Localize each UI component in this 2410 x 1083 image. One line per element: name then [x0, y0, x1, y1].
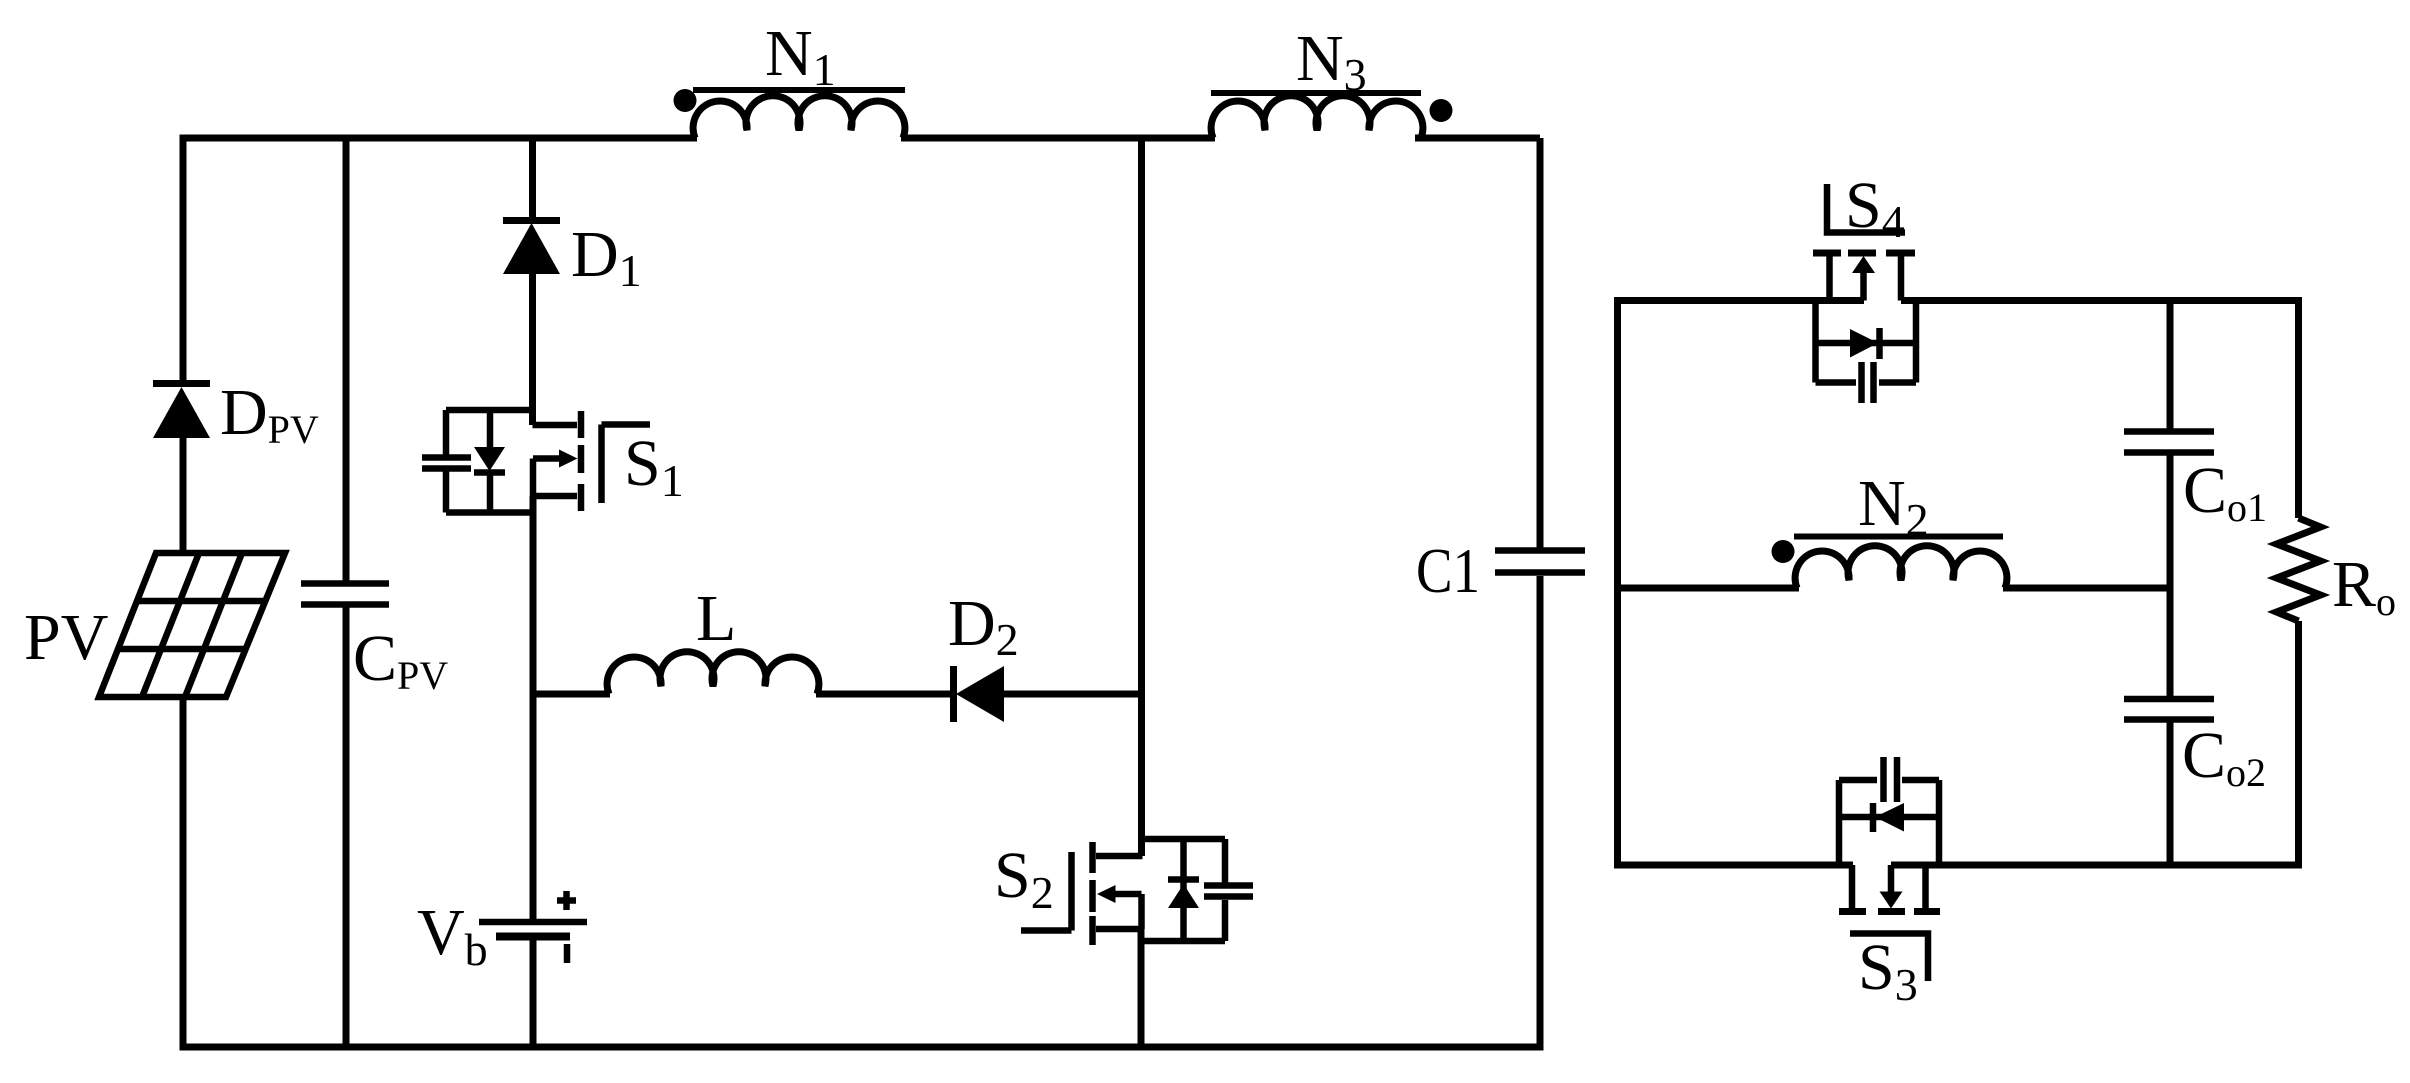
- wire C1 branch lower: [1537, 576, 1544, 1047]
- svg-text:Vb: Vb: [417, 896, 488, 975]
- wire right top rail left: [1614, 297, 1864, 304]
- svg-text:S3: S3: [1858, 931, 1918, 1010]
- S2 body diode triangle: [1168, 884, 1199, 908]
- wire Co branch top: [2167, 301, 2174, 430]
- S1 arrow head: [559, 450, 578, 468]
- resistor Ro: [2277, 297, 2321, 869]
- inductor N3: [1211, 93, 1423, 138]
- svg-text:Co1: Co1: [2183, 454, 2267, 530]
- PV panel: [99, 553, 285, 697]
- svg-text:S4: S4: [1845, 169, 1905, 247]
- inductor N1: [693, 90, 905, 138]
- wire N2 left: [1618, 585, 1800, 592]
- wire left rail upper: [180, 135, 187, 382]
- wire left rail mid: [180, 436, 187, 556]
- inductor L: [607, 652, 819, 694]
- wire D1 to S1: [529, 272, 536, 425]
- wire Vb to bottom: [530, 938, 537, 1047]
- diode DPV: [153, 384, 210, 439]
- svg-text:DPV: DPV: [220, 376, 319, 452]
- S4 body diode triangle: [1850, 329, 1878, 358]
- wire right bottom rail left: [1614, 862, 1853, 869]
- diode D2: [954, 666, 1005, 722]
- S2 arrow head: [1097, 885, 1116, 903]
- wire Co branch mid: [2167, 455, 2174, 697]
- wire top rail right: [1415, 135, 1540, 142]
- svg-text:D1: D1: [571, 218, 642, 296]
- inductor N2: [1794, 537, 2007, 589]
- svg-text:N3: N3: [1296, 22, 1367, 100]
- svg-text:L: L: [696, 582, 736, 655]
- svg-text:Ro: Ro: [2332, 548, 2396, 624]
- svg-text:Co2: Co2: [2182, 719, 2266, 795]
- mosfet S1: [422, 410, 650, 513]
- wire D1 branch top: [529, 138, 536, 219]
- S3 arrow head: [1880, 892, 1903, 909]
- svg-text:N1: N1: [765, 17, 836, 95]
- wire left rail lower: [180, 694, 187, 1047]
- wire middle branch lower: [1138, 929, 1145, 1047]
- wire top rail left: [180, 135, 697, 142]
- wire L left: [533, 691, 611, 698]
- wire C1 branch upper: [1537, 138, 1544, 548]
- capacitor Co2: [2124, 699, 2214, 720]
- wire middle branch upper: [1138, 138, 1145, 856]
- wire D2 to middle: [1004, 691, 1142, 698]
- svg-text:S2: S2: [994, 839, 1054, 918]
- dot N3: [1430, 99, 1453, 122]
- wire bottom rail: [180, 1044, 1544, 1051]
- capacitor CPV: [301, 584, 389, 605]
- wire L to D2: [816, 691, 951, 698]
- diode D1: [503, 221, 560, 275]
- S3 body diode triangle: [1875, 803, 1904, 832]
- svg-text:D2: D2: [948, 587, 1019, 665]
- wire top rail middle: [901, 135, 1215, 142]
- battery Vb: [479, 891, 587, 963]
- mosfet S4: [1813, 184, 1916, 403]
- mosfet S2: [1021, 839, 1253, 945]
- dot N2: [1772, 540, 1795, 563]
- wire S1 to Vb: [530, 496, 537, 920]
- S4 arrow head: [1852, 256, 1875, 273]
- capacitor Co1: [2124, 432, 2214, 453]
- S1 body diode triangle: [474, 447, 505, 471]
- dot N1: [674, 89, 697, 112]
- wire right bottom rail right: [1891, 862, 2302, 869]
- wire CPV branch lower: [343, 607, 350, 1047]
- svg-text:C1: C1: [1416, 535, 1480, 606]
- wire CPV branch upper: [343, 138, 350, 581]
- mosfet S3: [1839, 757, 1940, 981]
- wire N2 right: [2003, 585, 2170, 592]
- svg-text:N2: N2: [1858, 467, 1929, 545]
- svg-text:S1: S1: [624, 427, 684, 506]
- wire right top rail right: [1901, 297, 2299, 304]
- capacitor C1: [1495, 551, 1585, 573]
- svg-text:PV: PV: [24, 601, 108, 674]
- wire Co branch bottom: [2167, 722, 2174, 865]
- svg-text:CPV: CPV: [353, 622, 448, 698]
- right circuit left edge: [1614, 301, 1621, 866]
